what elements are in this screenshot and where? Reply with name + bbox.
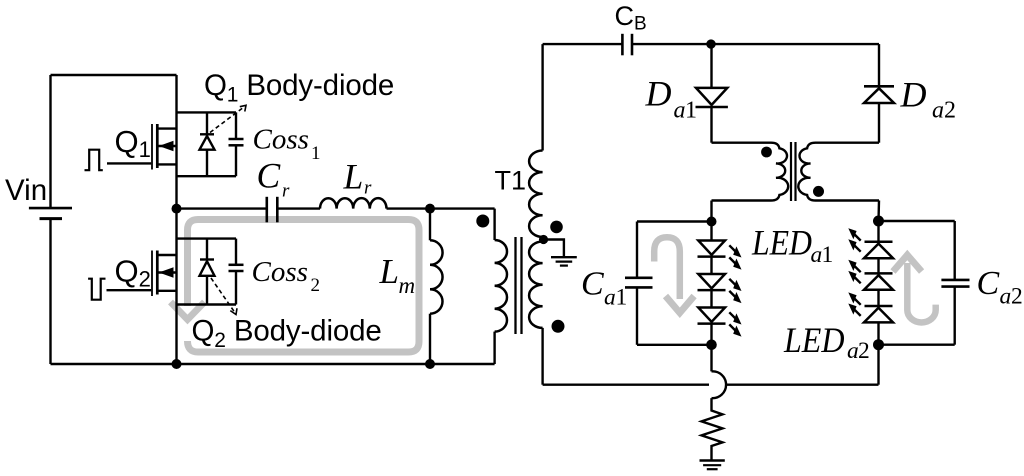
diode Q2 body-diode [206, 239, 208, 260]
node LEDa1 top [707, 217, 717, 227]
svg-text:C: C [257, 155, 281, 195]
diode Q1 body-diode [206, 112, 208, 134]
transformer T1 secondary winding [541, 44, 543, 150]
svg-text:a: a [674, 97, 686, 123]
battery Vin [49, 75, 51, 208]
svg-text:r: r [282, 181, 290, 202]
svg-text:L: L [343, 157, 364, 197]
svg-text:LED: LED [751, 223, 812, 263]
gray loop arrowhead (down, left side) [171, 302, 205, 320]
svg-text:T1: T1 [495, 166, 527, 196]
capacitor Coss1 [235, 112, 237, 139]
diode Da2 [878, 44, 880, 86]
svg-text:a: a [932, 97, 944, 123]
wire mid node to Cr [177, 207, 267, 209]
transistor Q1 [107, 162, 151, 164]
node Q2 source rail [172, 359, 182, 369]
node LEDa2 top [873, 216, 884, 227]
wire aux left to LED rail [710, 201, 712, 222]
node T1 center tap [539, 235, 548, 244]
svg-text:m: m [399, 273, 416, 298]
node CB-Da1 [706, 39, 715, 48]
transistor Q2 [107, 289, 152, 291]
wire LEDa2 bottom to bus [877, 345, 879, 385]
Q1 gate pulse symbol [85, 150, 103, 171]
auxiliary transformer core [790, 142, 792, 201]
svg-text:LED: LED [783, 320, 844, 360]
svg-text:a: a [811, 242, 823, 268]
bus wire (secondary return) [543, 384, 709, 386]
svg-text:r: r [364, 178, 372, 199]
ground (resistor) [700, 459, 725, 461]
svg-text:2: 2 [311, 275, 321, 296]
svg-text:D: D [900, 74, 927, 114]
wire half-bridge vertical [175, 75, 177, 364]
LED string LEDa1 [710, 222, 712, 241]
wire aux right to LED rail [877, 201, 880, 222]
LED string LEDa2 [877, 221, 879, 242]
capacitor Ca1 [636, 222, 638, 278]
wire LEDa2 top rail [879, 220, 955, 222]
resonant current loop (gray) [188, 220, 420, 353]
svg-text:1: 1 [822, 242, 834, 268]
phase dot aux right [813, 186, 824, 197]
LED emission arrows LEDa2 [848, 228, 860, 252]
T1 center tap to ground [544, 240, 564, 258]
svg-text:C: C [581, 266, 604, 303]
node LEDa1 bottom [706, 340, 717, 351]
diode Da1 [710, 44, 712, 88]
auxiliary transformer right winding [798, 143, 879, 201]
svg-text:1: 1 [616, 285, 628, 311]
wire LEDa1 bottom rail [637, 344, 712, 346]
phase dot T1 primary [476, 215, 489, 228]
phase dot T1 secondary upper [550, 221, 563, 234]
dashed callout to Q1 body-diode label [210, 107, 244, 133]
svg-text:a: a [847, 338, 859, 364]
svg-text:a: a [1000, 284, 1012, 310]
Q2 gate pulse symbol [88, 279, 105, 300]
svg-text:1: 1 [685, 97, 697, 123]
capacitor Cr [265, 197, 268, 223]
wire bottom rail [51, 363, 495, 365]
svg-text:D: D [645, 73, 672, 113]
ground (T1 center tap) [551, 256, 577, 258]
svg-text:1: 1 [311, 143, 321, 164]
node LEDa2 bottom [873, 339, 884, 350]
svg-text:Vin: Vin [5, 174, 47, 207]
wire top link to CB [543, 43, 623, 45]
resistor (sense) [702, 398, 723, 459]
capacitor Coss2 [235, 239, 237, 265]
Q1 group rails [177, 111, 237, 113]
wire top rail [51, 74, 177, 76]
wire LEDa1 top rail [637, 220, 712, 222]
svg-text:Coss: Coss [252, 256, 308, 288]
dashed callout to Q2 body-diode label [211, 278, 235, 312]
phase dot T1 secondary lower [552, 320, 565, 333]
phase dot aux left [761, 147, 772, 158]
LED emission arrows LEDa1 [729, 245, 741, 269]
svg-text:2: 2 [858, 338, 870, 364]
capacitor Ca2 [954, 221, 956, 280]
svg-text:Coss: Coss [253, 124, 309, 156]
gray circulating arrow LEDa2 (up) [907, 263, 935, 322]
wire LEDa2 bottom rail [879, 344, 955, 346]
svg-text:C: C [977, 265, 1000, 302]
node half-bridge mid [172, 204, 182, 214]
svg-text:a: a [604, 285, 616, 311]
inductor Lm [429, 209, 431, 241]
auxiliary transformer left winding [712, 143, 789, 201]
svg-text:2: 2 [944, 97, 956, 123]
svg-text:2: 2 [1011, 284, 1023, 310]
Q2 group rails [177, 237, 237, 239]
svg-text:L: L [379, 252, 399, 291]
transformer T1 primary winding [493, 209, 495, 240]
node Lm bottom [425, 359, 435, 369]
node Lr-Lm junction [425, 204, 435, 214]
inductor Lr [320, 198, 387, 208]
transformer T1 core [514, 237, 516, 334]
gray circulating arrow LEDa1 (down) [654, 237, 680, 299]
capacitor CB [621, 34, 624, 56]
wire LED return to bus with hop [710, 345, 712, 372]
